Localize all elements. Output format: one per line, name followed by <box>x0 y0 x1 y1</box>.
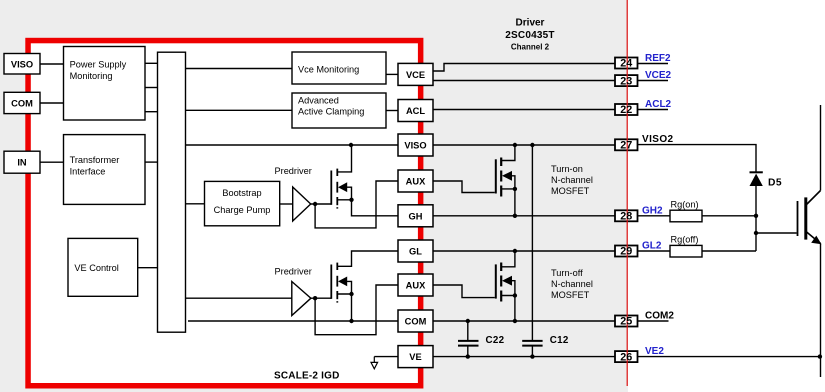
wire Rg(off) to gate node <box>702 250 756 252</box>
svg-text:GH2: GH2 <box>642 205 663 216</box>
svg-text:VISO: VISO <box>404 141 426 151</box>
label Turn-off N-channel MOSFET <box>551 268 593 300</box>
wire pin 29 to Rg(off) <box>638 250 671 252</box>
wire PSM to bus stub 2 <box>145 87 158 89</box>
svg-text:VISO2: VISO2 <box>642 134 673 145</box>
wire gate node to IGBT gate <box>756 232 797 234</box>
wire D5 to Rg(off) node vertical <box>755 186 757 251</box>
pin VCE <box>398 63 433 85</box>
label Turn-on N-channel MOSFET <box>551 164 593 196</box>
label Driver 2SC0435T Channel 2 <box>505 18 554 52</box>
svg-text:Rg(on): Rg(on) <box>671 199 699 209</box>
svg-text:Charge Pump: Charge Pump <box>214 205 271 215</box>
pin number 23 <box>615 75 638 86</box>
op-amp predriver 2 triangle <box>292 282 311 316</box>
svg-text:MOSFET: MOSFET <box>551 290 590 300</box>
wire ground to VE pin <box>374 356 398 358</box>
svg-text:Predriver: Predriver <box>275 266 312 276</box>
pin number 22 <box>615 104 638 115</box>
svg-text:COM2: COM2 <box>645 311 674 322</box>
svg-text:GL: GL <box>409 247 422 257</box>
svg-text:C22: C22 <box>486 335 505 346</box>
svg-text:SCALE-2 IGD: SCALE-2 IGD <box>274 370 340 381</box>
input pad VISO <box>4 54 40 75</box>
wire bus to Advanced Active Clamping <box>186 109 293 111</box>
svg-text:Monitoring: Monitoring <box>70 71 113 81</box>
svg-text:VE2: VE2 <box>645 346 664 357</box>
node big Toff source stub <box>513 293 517 297</box>
pin VISO <box>398 134 433 156</box>
wire AUX1 pin to big turn-on MOSFET gate <box>433 181 495 193</box>
SCALE-2 IGD red border <box>28 41 421 386</box>
svg-text:MOSFET: MOSFET <box>551 186 590 196</box>
svg-text:Active Clamping: Active Clamping <box>298 106 364 116</box>
node COM rail / C22 <box>466 319 470 323</box>
pin number 28 <box>615 210 638 221</box>
pin VE <box>398 346 433 368</box>
transistor big turn-on MOSFET <box>496 158 512 197</box>
node COM rail / big Toff source <box>513 319 517 323</box>
input pad COM <box>4 92 40 113</box>
wire pin 25 stub COM2 <box>638 320 669 322</box>
wire pin 22 stub ACL2 <box>638 109 669 111</box>
svg-text:N-channel: N-channel <box>551 279 593 289</box>
svg-text:VISO: VISO <box>11 60 33 70</box>
svg-text:2SC0435T: 2SC0435T <box>505 30 554 41</box>
wire AUX1 loop from predriver1 output <box>315 181 398 228</box>
svg-text:25: 25 <box>620 316 632 328</box>
svg-text:AUX: AUX <box>406 281 426 291</box>
transistor big turn-off MOSFET <box>496 263 512 302</box>
svg-text:22: 22 <box>620 104 632 116</box>
wire bus to Vce Monitoring <box>186 68 293 70</box>
pin number 24 <box>615 58 638 69</box>
svg-text:C12: C12 <box>550 335 569 346</box>
svg-text:IN: IN <box>17 158 27 168</box>
wire AUX2 pin to big turn-off MOSFET gate <box>433 285 495 298</box>
wire IGBT collector vertical <box>820 105 822 191</box>
resistor Rg(off) <box>670 235 702 257</box>
wire VISO input to Power Supply Monitoring <box>40 63 64 65</box>
pin AUX upper <box>398 170 433 192</box>
svg-text:ACL2: ACL2 <box>645 99 672 110</box>
wire big turn-off MOSFET drain to GL rail <box>501 251 515 267</box>
node predriver1 output <box>313 202 317 206</box>
wire GH rail (GH pin to pin 28) <box>433 215 615 217</box>
svg-text:COM: COM <box>11 99 33 109</box>
white interior of SCALE-2 IGD block <box>28 41 421 386</box>
pin number 26 <box>615 351 638 362</box>
wire VCE pin to pin 24 (step) <box>433 64 615 72</box>
wire Bootstrap to predriver 1 <box>280 203 293 205</box>
node VISO rail / big Ton drain <box>513 143 517 147</box>
bus (vertical backbone rectangle) <box>158 52 186 332</box>
svg-text:Driver: Driver <box>516 18 545 29</box>
svg-text:24: 24 <box>620 58 632 70</box>
node COM rail / small Toff source <box>349 319 353 323</box>
wire big turn-off MOSFET source to COM rail <box>501 296 515 322</box>
svg-text:VCE: VCE <box>406 70 425 80</box>
svg-text:Advanced: Advanced <box>298 95 339 105</box>
svg-text:Rg(off): Rg(off) <box>671 235 699 245</box>
wire small turn-off MOSFET drain to GL <box>338 251 399 266</box>
block Advanced Active Clamping <box>292 93 386 128</box>
channel separator red line <box>626 0 628 386</box>
node VE rail / C12 <box>530 354 534 358</box>
wire Transformer Interface to bus <box>145 161 158 163</box>
svg-text:REF2: REF2 <box>645 53 671 64</box>
wire pin 27 VISO2 to D5 branch <box>638 145 757 173</box>
svg-text:D5: D5 <box>768 178 782 189</box>
svg-text:VCE2: VCE2 <box>645 70 672 81</box>
wire Advanced Active Clamping to ACL pin <box>386 110 398 112</box>
wire Rg(on) to gate node <box>702 215 756 217</box>
svg-text:Transformer: Transformer <box>70 155 120 165</box>
svg-text:VE Control: VE Control <box>74 263 118 273</box>
wire pin 26 VE2 to IGBT emitter <box>638 356 820 358</box>
pin GL <box>398 240 433 262</box>
wire big turn-on MOSFET source to GH rail <box>501 189 515 216</box>
pin GH <box>398 205 433 227</box>
wire small turn-on MOSFET drain to VISO rail <box>338 145 352 172</box>
diode D5 <box>750 172 782 188</box>
svg-text:23: 23 <box>620 75 632 87</box>
node VISO rail / small Ton drain <box>349 143 353 147</box>
block Bootstrap Charge Pump <box>205 181 280 225</box>
wire VISO rail (bus to VISO pin) <box>186 144 399 146</box>
pin ACL <box>398 100 433 122</box>
node small Toff source <box>349 292 353 296</box>
block Vce Monitoring <box>292 52 386 84</box>
wire pin 23 stub VCE2 <box>638 80 669 82</box>
svg-text:Interface: Interface <box>70 166 106 176</box>
node predriver2 output <box>313 296 317 300</box>
block Transformer Interface <box>64 135 146 205</box>
block Power Supply Monitoring <box>64 47 146 121</box>
wire PSM to bus stub 1 <box>145 62 158 64</box>
wire PSM to bus stub 3 <box>145 111 158 113</box>
wire Vce Monitoring to VCE pin <box>386 73 398 75</box>
pin number 25 <box>615 316 638 327</box>
svg-text:Turn-on: Turn-on <box>551 164 583 174</box>
svg-text:Bootstrap: Bootstrap <box>222 188 261 198</box>
pin COM <box>398 310 433 332</box>
wire VE rail (VE pin to pin 26) <box>433 356 615 358</box>
wire C12 bottom branch to VE rail <box>531 347 533 357</box>
wire IGBT emitter vertical <box>820 244 822 378</box>
wire VE Control to bus <box>138 267 158 269</box>
wire predriver2 output to gate <box>311 297 332 299</box>
svg-text:Channel 2: Channel 2 <box>511 43 550 52</box>
wire small turn-on MOSFET arrow tail <box>347 187 352 200</box>
node GL rail / big Toff drain <box>513 249 517 253</box>
svg-text:Vce Monitoring: Vce Monitoring <box>298 64 359 74</box>
wire small turn-on MOSFET source to GH <box>338 200 399 216</box>
svg-text:N-channel: N-channel <box>551 175 593 185</box>
node VE2 / IGBT emitter <box>818 354 822 358</box>
svg-text:Power Supply: Power Supply <box>70 59 127 69</box>
node gate node <box>754 231 758 235</box>
node GH rail / big Ton source <box>513 214 517 218</box>
wire big turn-off MOSFET arrow tail <box>512 281 515 296</box>
transistor small turn-on MOSFET <box>331 169 347 209</box>
resistor Rg(on) <box>670 199 702 222</box>
wire AUX2 loop from predriver2 output <box>315 285 398 335</box>
transistor IGBT <box>798 191 822 245</box>
node small Ton source <box>349 198 353 202</box>
ground <box>371 357 378 369</box>
svg-text:VE: VE <box>409 352 421 362</box>
block VE Control <box>68 238 138 296</box>
wire VCE pin to pin 23 <box>433 80 615 82</box>
node VISO rail / C12 <box>530 143 534 147</box>
capacitor C22 <box>458 335 505 346</box>
wire C22 top branch from COM rail <box>467 321 469 340</box>
node Rg(on) / D5 branch <box>754 214 758 218</box>
svg-text:Turn-off: Turn-off <box>551 268 583 278</box>
wire small turn-off MOSFET arrow tail <box>347 281 352 294</box>
wire big turn-on MOSFET arrow tail <box>512 176 515 189</box>
wire C12 top branch from VISO rail <box>531 145 533 340</box>
wire big turn-on MOSFET drain to VISO rail <box>501 145 515 161</box>
wire bus to predriver 2 <box>186 297 292 299</box>
wire COM rail inside (bus to COM pin) <box>188 320 398 322</box>
svg-text:29: 29 <box>620 246 632 258</box>
wire bus to Bootstrap Charge Pump <box>186 203 205 205</box>
wire pin 24 stub REF2 <box>638 63 669 65</box>
wire C22 bottom branch to VE rail <box>467 347 469 357</box>
wire IN input to Transformer Interface <box>40 161 64 163</box>
svg-text:Predriver: Predriver <box>275 166 312 176</box>
svg-text:28: 28 <box>620 211 632 223</box>
svg-text:COM: COM <box>405 317 427 327</box>
svg-text:GL2: GL2 <box>642 241 662 252</box>
input pad IN <box>4 151 40 173</box>
pin number 29 <box>615 246 638 257</box>
wire pin 28 to Rg(on) <box>638 215 671 217</box>
op-amp predriver 1 triangle <box>293 187 311 221</box>
wire VISO rail outside (VISO pin to pin 27) <box>433 144 615 146</box>
wire predriver1 output to gate <box>311 203 332 205</box>
pin number 27 <box>615 139 638 150</box>
wire small turn-off MOSFET source to COM rail <box>338 294 352 321</box>
wire ACL pin to pin 22 <box>433 109 615 111</box>
background white right panel <box>628 0 825 392</box>
svg-text:26: 26 <box>620 351 632 363</box>
svg-text:27: 27 <box>620 140 632 152</box>
svg-text:AUX: AUX <box>406 177 426 187</box>
wire COM rail outside (COM pin to pin 25) <box>433 320 615 322</box>
pin AUX lower <box>398 274 433 296</box>
node big Ton source stub <box>513 187 517 191</box>
node VE rail / C22 <box>466 354 470 358</box>
transistor small turn-off MOSFET <box>331 263 347 303</box>
wire COM input to Power Supply Monitoring <box>40 102 64 104</box>
wire GL rail (GL pin to pin 29) <box>433 250 615 252</box>
capacitor C12 <box>522 335 569 346</box>
svg-text:ACL: ACL <box>406 106 425 116</box>
svg-text:GH: GH <box>409 211 423 221</box>
